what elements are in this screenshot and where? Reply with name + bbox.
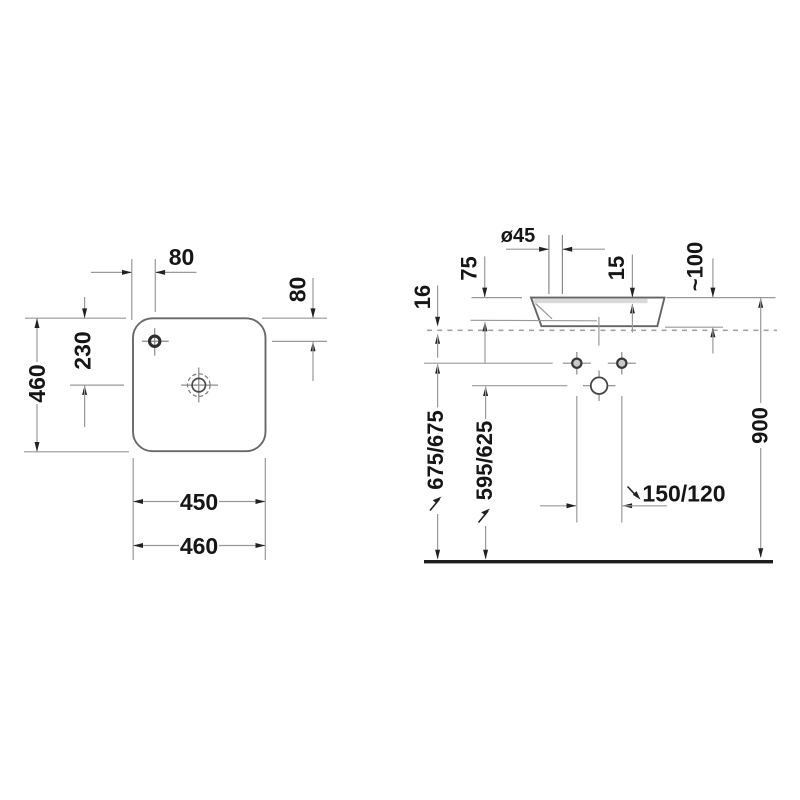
mounting holes extension line left (424, 362, 553, 364)
inner bowl profile diagonal (536, 304, 553, 319)
dim 595/625: upper segment (485, 387, 487, 419)
dim 80 right: arrow pointing down (311, 308, 316, 318)
dim 150/120: arrow pointing left (622, 503, 632, 508)
svg-text:460: 460 (24, 364, 50, 402)
faucet hole crosshair (142, 328, 169, 356)
extension line basin top edge right part (262, 317, 327, 319)
left mounting hole crosshair (563, 352, 591, 375)
dim 16: lower line (437, 334, 439, 357)
dim 675/675: lower segment (437, 514, 439, 559)
dim 80 top: arrow pointing right (122, 270, 132, 275)
basin outline (rounded square 460x460) (133, 318, 266, 451)
svg-text:80: 80 (169, 244, 195, 270)
dim 675/675: slash arrow (430, 497, 442, 511)
dim 230: upper overrun line (84, 297, 86, 318)
dim 230: arrow pointing down (82, 308, 87, 318)
dim 595/625: lower segment (485, 526, 487, 559)
right mounting hole crosshair (608, 352, 636, 375)
drain hole extension line left (472, 385, 567, 387)
basin center line (598, 317, 600, 346)
dim 150/120: slash arrow (628, 487, 641, 500)
dim 460 left: lower segment (36, 404, 38, 451)
faucet hole edge lines (o45) (549, 235, 563, 294)
dim 75: arrow pointing down (482, 288, 487, 298)
dim 675/675: upper segment (437, 364, 439, 407)
dim 675/675: arrow pointing up (435, 364, 440, 374)
dim o45: arrow pointing left (562, 247, 572, 252)
svg-text:~100: ~100 (683, 242, 708, 292)
faucet hole ring (150, 336, 160, 346)
dim o45: right line (563, 248, 605, 250)
svg-text:595/625: 595/625 (472, 421, 497, 501)
svg-text:16: 16 (410, 285, 435, 309)
svg-text:460: 460 (180, 533, 218, 559)
drain inner circle (192, 378, 205, 391)
dim 900: arrow pointing down (758, 548, 763, 558)
bowl bottom line with left extension (471, 319, 598, 322)
extension line basin left edge up (131, 259, 133, 320)
dim 460 left: arrow pointing up (35, 318, 40, 328)
dim 595/625: arrow pointing down (483, 550, 488, 560)
extension line drain center left part (70, 384, 124, 386)
dim 16: arrow pointing up (435, 334, 440, 344)
dim 230: lower overrun line (84, 386, 86, 427)
dim ~100: lower line (712, 330, 714, 354)
dim 900: lower segment (760, 448, 762, 557)
dim 675/675: arrow pointing down (435, 550, 440, 560)
dim 450: arrow pointing left (133, 499, 143, 504)
extension line basin top edge left part (25, 317, 126, 319)
dim ~100: upper line (712, 259, 714, 297)
dim 80 right: arrow pointing up (311, 341, 316, 351)
aux dim line between bowl bottom and holes line (483, 322, 488, 332)
drain crosshair (181, 368, 218, 403)
dim 150/120: left hole extension down (576, 396, 578, 523)
dim ~100: arrow pointing up (710, 327, 715, 337)
right mounting hole (617, 359, 626, 368)
dim 15: lower line (631, 304, 633, 333)
extension rim top right part (667, 297, 776, 299)
dim 75: line (484, 256, 486, 297)
svg-text:80: 80 (285, 277, 311, 303)
dim 15: arrow pointing down (630, 288, 635, 298)
dim 80 right: lower line (312, 342, 314, 381)
dim 460 left: upper segment (36, 319, 38, 362)
dim 150/120: right line (622, 505, 667, 507)
svg-text:15: 15 (604, 256, 629, 280)
svg-text:900: 900 (748, 407, 773, 444)
svg-text:150/120: 150/120 (642, 481, 725, 507)
dim 900: upper segment (760, 298, 762, 403)
dashed countertop line (427, 329, 777, 331)
dim 80 right: upper line (312, 278, 314, 318)
dim 450: right segment (219, 501, 265, 503)
extension line basin right edge down (264, 458, 266, 560)
dim 150/120: left line (540, 505, 576, 507)
dim 230: arrow pointing up (82, 385, 87, 395)
dim 450: left segment (134, 501, 179, 503)
dim 460 bottom: arrow pointing right (256, 543, 266, 548)
svg-text:450: 450 (180, 489, 218, 515)
dim 80 top: dimension line left part (91, 271, 131, 273)
rim inner shading band (534, 299, 648, 303)
dim 450: arrow pointing right (256, 499, 266, 504)
extension rim top left part (472, 297, 523, 299)
extension line faucet center up (154, 259, 156, 312)
dim ~100: arrow pointing down (710, 288, 715, 298)
dim o45: arrow pointing right (539, 247, 549, 252)
svg-text:230: 230 (70, 331, 96, 369)
dim 460 bottom: arrow pointing left (133, 543, 143, 548)
dim 16: upper line (437, 286, 439, 317)
left mounting hole (572, 359, 581, 368)
dim 900: arrow pointing up (758, 298, 763, 308)
dim 80 top: right arrow line (156, 271, 197, 273)
floor line (424, 560, 773, 563)
extension line basin bottom edge left part (24, 451, 129, 453)
extension basin bottom right part (665, 326, 723, 328)
dim o45: left line (506, 248, 549, 250)
extension line faucet center right part (272, 340, 327, 342)
dim 595/625: slash arrow (479, 509, 491, 523)
drain outer dashed circle (188, 374, 211, 397)
dim 460 left: arrow pointing down (35, 442, 40, 452)
drain hole circle (591, 377, 608, 394)
dim 16: arrow pointing down (435, 317, 440, 327)
dim 460 bottom: right segment (219, 545, 265, 547)
dim 150/120: arrow pointing right (567, 503, 577, 508)
basin side silhouette (531, 298, 665, 327)
dim 150/120: right hole extension down (621, 396, 623, 523)
svg-text:75: 75 (457, 256, 482, 280)
svg-text:675/675: 675/675 (423, 410, 448, 490)
dim 80 top: arrow pointing left (155, 270, 165, 275)
dim 460 bottom: left segment (134, 545, 179, 547)
drain hole crosshair (583, 371, 616, 402)
svg-text:ø45: ø45 (501, 225, 535, 247)
dim 15: arrow pointing up (630, 304, 635, 314)
extension line basin left edge down (132, 458, 134, 560)
dim 15: upper line (631, 255, 633, 298)
aux dim line vertical (484, 322, 486, 363)
dim 595/625: arrow pointing up (483, 386, 488, 396)
